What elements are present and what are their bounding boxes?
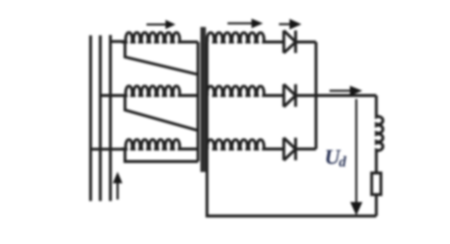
svg-text:Ud: Ud — [325, 145, 347, 171]
